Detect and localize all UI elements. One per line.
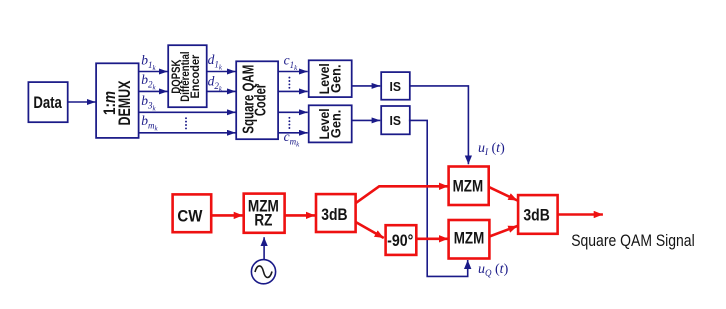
svg-text:d1k: d1k — [208, 52, 223, 72]
block 3dB splitter — [316, 194, 356, 232]
wire -90 to MZM2 — [416, 238, 448, 241]
svg-text:Gen.: Gen. — [328, 64, 344, 93]
svg-text:d2k: d2k — [208, 73, 223, 93]
block MZM1 — [449, 167, 489, 206]
block IS 2 — [381, 106, 410, 134]
svg-text:MZM: MZM — [454, 230, 485, 248]
svg-text:DEMUX: DEMUX — [116, 81, 134, 126]
svg-text:Gen.: Gen. — [328, 110, 344, 138]
label b1k — [141, 52, 156, 72]
wire 3dB combiner output — [558, 213, 603, 216]
block MZM2 — [449, 220, 490, 259]
svg-text:Coder: Coder — [253, 84, 270, 116]
wire d1k DQPSK to QAM coder — [207, 71, 236, 73]
wire IS1 to MZM1 uI — [410, 86, 469, 164]
wire bmk DEMUX to QAM coder — [139, 132, 236, 134]
label d1k — [208, 52, 223, 72]
label d2k — [208, 73, 223, 93]
wire row3 QAM to Level Gen 2 — [278, 111, 308, 113]
wire IS2 to MZM2 uQ — [409, 120, 468, 276]
svg-text:c1k: c1k — [284, 53, 299, 73]
svg-text:cmk: cmk — [284, 129, 301, 149]
ellipsis between c rows 3-4 — [288, 117, 290, 129]
wire c1k QAM to Level Gen 1 — [278, 71, 308, 73]
svg-text:b3k: b3k — [141, 93, 156, 113]
label cmk — [284, 129, 301, 149]
block Square QAM Coder — [236, 61, 278, 139]
block 3dB combiner — [518, 195, 558, 234]
svg-text:IS: IS — [390, 79, 402, 94]
block Level Gen 2 — [309, 105, 352, 142]
label b3k — [141, 93, 156, 113]
svg-text:Square QAM Signal: Square QAM Signal — [571, 231, 695, 250]
svg-text:Data: Data — [33, 93, 62, 112]
wire CW to MZM RZ — [211, 214, 243, 217]
block IS 1 — [381, 72, 410, 100]
svg-text:b2k: b2k — [141, 72, 156, 92]
label bmk — [141, 113, 158, 133]
svg-text:b1k: b1k — [141, 52, 156, 72]
block 1:m DEMUX — [96, 63, 139, 138]
svg-text:uI (t): uI (t) — [478, 141, 505, 157]
label Square QAM Signal — [571, 231, 695, 250]
block CW — [173, 194, 212, 232]
wire 3dB to -90 — [355, 222, 384, 238]
wire b1k DEMUX to DQPSK — [139, 71, 168, 73]
wire cmk QAM to Level Gen 2 — [278, 132, 308, 134]
block MZM RZ — [244, 194, 285, 233]
wire 3dB to MZM1 — [355, 186, 448, 203]
oscillator — [251, 260, 275, 284]
svg-text:3dB: 3dB — [523, 206, 549, 225]
wire d2k DQPSK to QAM coder — [207, 90, 236, 92]
ellipsis between c rows 1-2 — [288, 77, 290, 89]
block -90 — [386, 225, 417, 255]
svg-text:uQ (t): uQ (t) — [478, 262, 509, 278]
wire row2 QAM to Level Gen 1 — [278, 90, 308, 92]
wire oscillator to MZM RZ — [263, 237, 265, 259]
svg-text:CW: CW — [177, 206, 203, 225]
label c1k — [284, 53, 299, 73]
ellipsis between b3k and bmk — [185, 117, 187, 129]
wire b3k DEMUX to QAM coder — [139, 111, 236, 113]
label uI(t) — [478, 141, 505, 157]
label b2k — [141, 72, 156, 92]
block DQPSK Differential Encoder — [168, 45, 207, 107]
svg-text:RZ: RZ — [254, 212, 272, 230]
block Data — [28, 82, 67, 122]
block Level Gen 1 — [309, 60, 352, 97]
svg-text:MZM: MZM — [453, 178, 484, 196]
wire Data to DEMUX — [68, 101, 96, 103]
wire Level Gen 2 to IS 2 — [352, 119, 381, 121]
wire MZM1 to 3dB combiner — [489, 187, 518, 201]
wire MZM2 to 3dB combiner — [489, 226, 517, 237]
svg-text:-90°: -90° — [387, 232, 413, 250]
svg-text:3dB: 3dB — [321, 205, 347, 224]
wire b2k DEMUX to DQPSK — [139, 90, 168, 92]
wire Level Gen 1 to IS 1 — [352, 85, 381, 87]
label uQ(t) — [478, 262, 509, 278]
svg-text:Encoder: Encoder — [188, 54, 202, 98]
svg-text:IS: IS — [390, 113, 402, 128]
svg-text:bmk: bmk — [141, 113, 158, 133]
wire MZM RZ to 3dB — [285, 214, 315, 217]
